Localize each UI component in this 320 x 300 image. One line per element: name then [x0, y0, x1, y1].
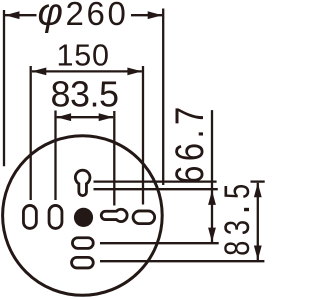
reference line slot3 (dim A bottom) [100, 242, 219, 244]
dimension line 83.5 right vertical [257, 183, 259, 260]
arrowhead 83.5right down [254, 246, 262, 261]
reference line keyhole lower (dim A top) [94, 188, 218, 190]
extension line phi260 left [3, 10, 5, 166]
dimension line 66.7 vertical [211, 110, 213, 242]
extension line 150 right [142, 66, 144, 205]
arrowhead 83.5 right [99, 113, 114, 121]
dimension line phi260 left segment [5, 14, 37, 16]
mounting plate circle [3, 136, 163, 296]
extension line 83.5 right [113, 111, 115, 206]
arrowhead 83.5right up [254, 183, 262, 198]
arrowhead 66.7 up [208, 190, 216, 205]
svg-text:φ260: φ260 [38, 0, 129, 34]
center knock hole (filled) [74, 208, 93, 227]
arrowhead 83.5 left [57, 113, 72, 121]
stadium lower 4 [72, 257, 94, 268]
svg-text:150: 150 [57, 39, 110, 73]
stadium right [133, 211, 155, 224]
dimension line phi260 right segment [131, 14, 162, 16]
keyhole horizontal (slot + circle right) [101, 209, 127, 221]
reference line keyhole upper (dim B top) [94, 180, 217, 182]
arrowhead 150 left [32, 68, 47, 76]
arrowhead phi260 left [5, 11, 20, 19]
screw slot A vertical stadium [23, 205, 36, 228]
svg-text:66.7: 66.7 [167, 102, 212, 183]
stadium lower 3 [72, 238, 93, 249]
extension line phi260 right [162, 9, 164, 186]
arrowhead 66.7 down [208, 228, 216, 243]
reference line upper right segment [251, 180, 265, 182]
extension line 150 left [30, 66, 32, 200]
screw slot B vertical stadium [49, 205, 62, 228]
extension line 83.5 left [54, 111, 56, 201]
svg-text:83.5: 83.5 [51, 74, 119, 115]
arrowhead 150 right [127, 68, 141, 76]
dimension line 150 [32, 70, 142, 72]
dimension line 83.5 top [57, 116, 114, 118]
reference line slot4 (dim B bottom) [100, 260, 264, 262]
keyhole top (circle + slot down) [75, 170, 90, 195]
arrowhead phi260 right [148, 11, 163, 19]
